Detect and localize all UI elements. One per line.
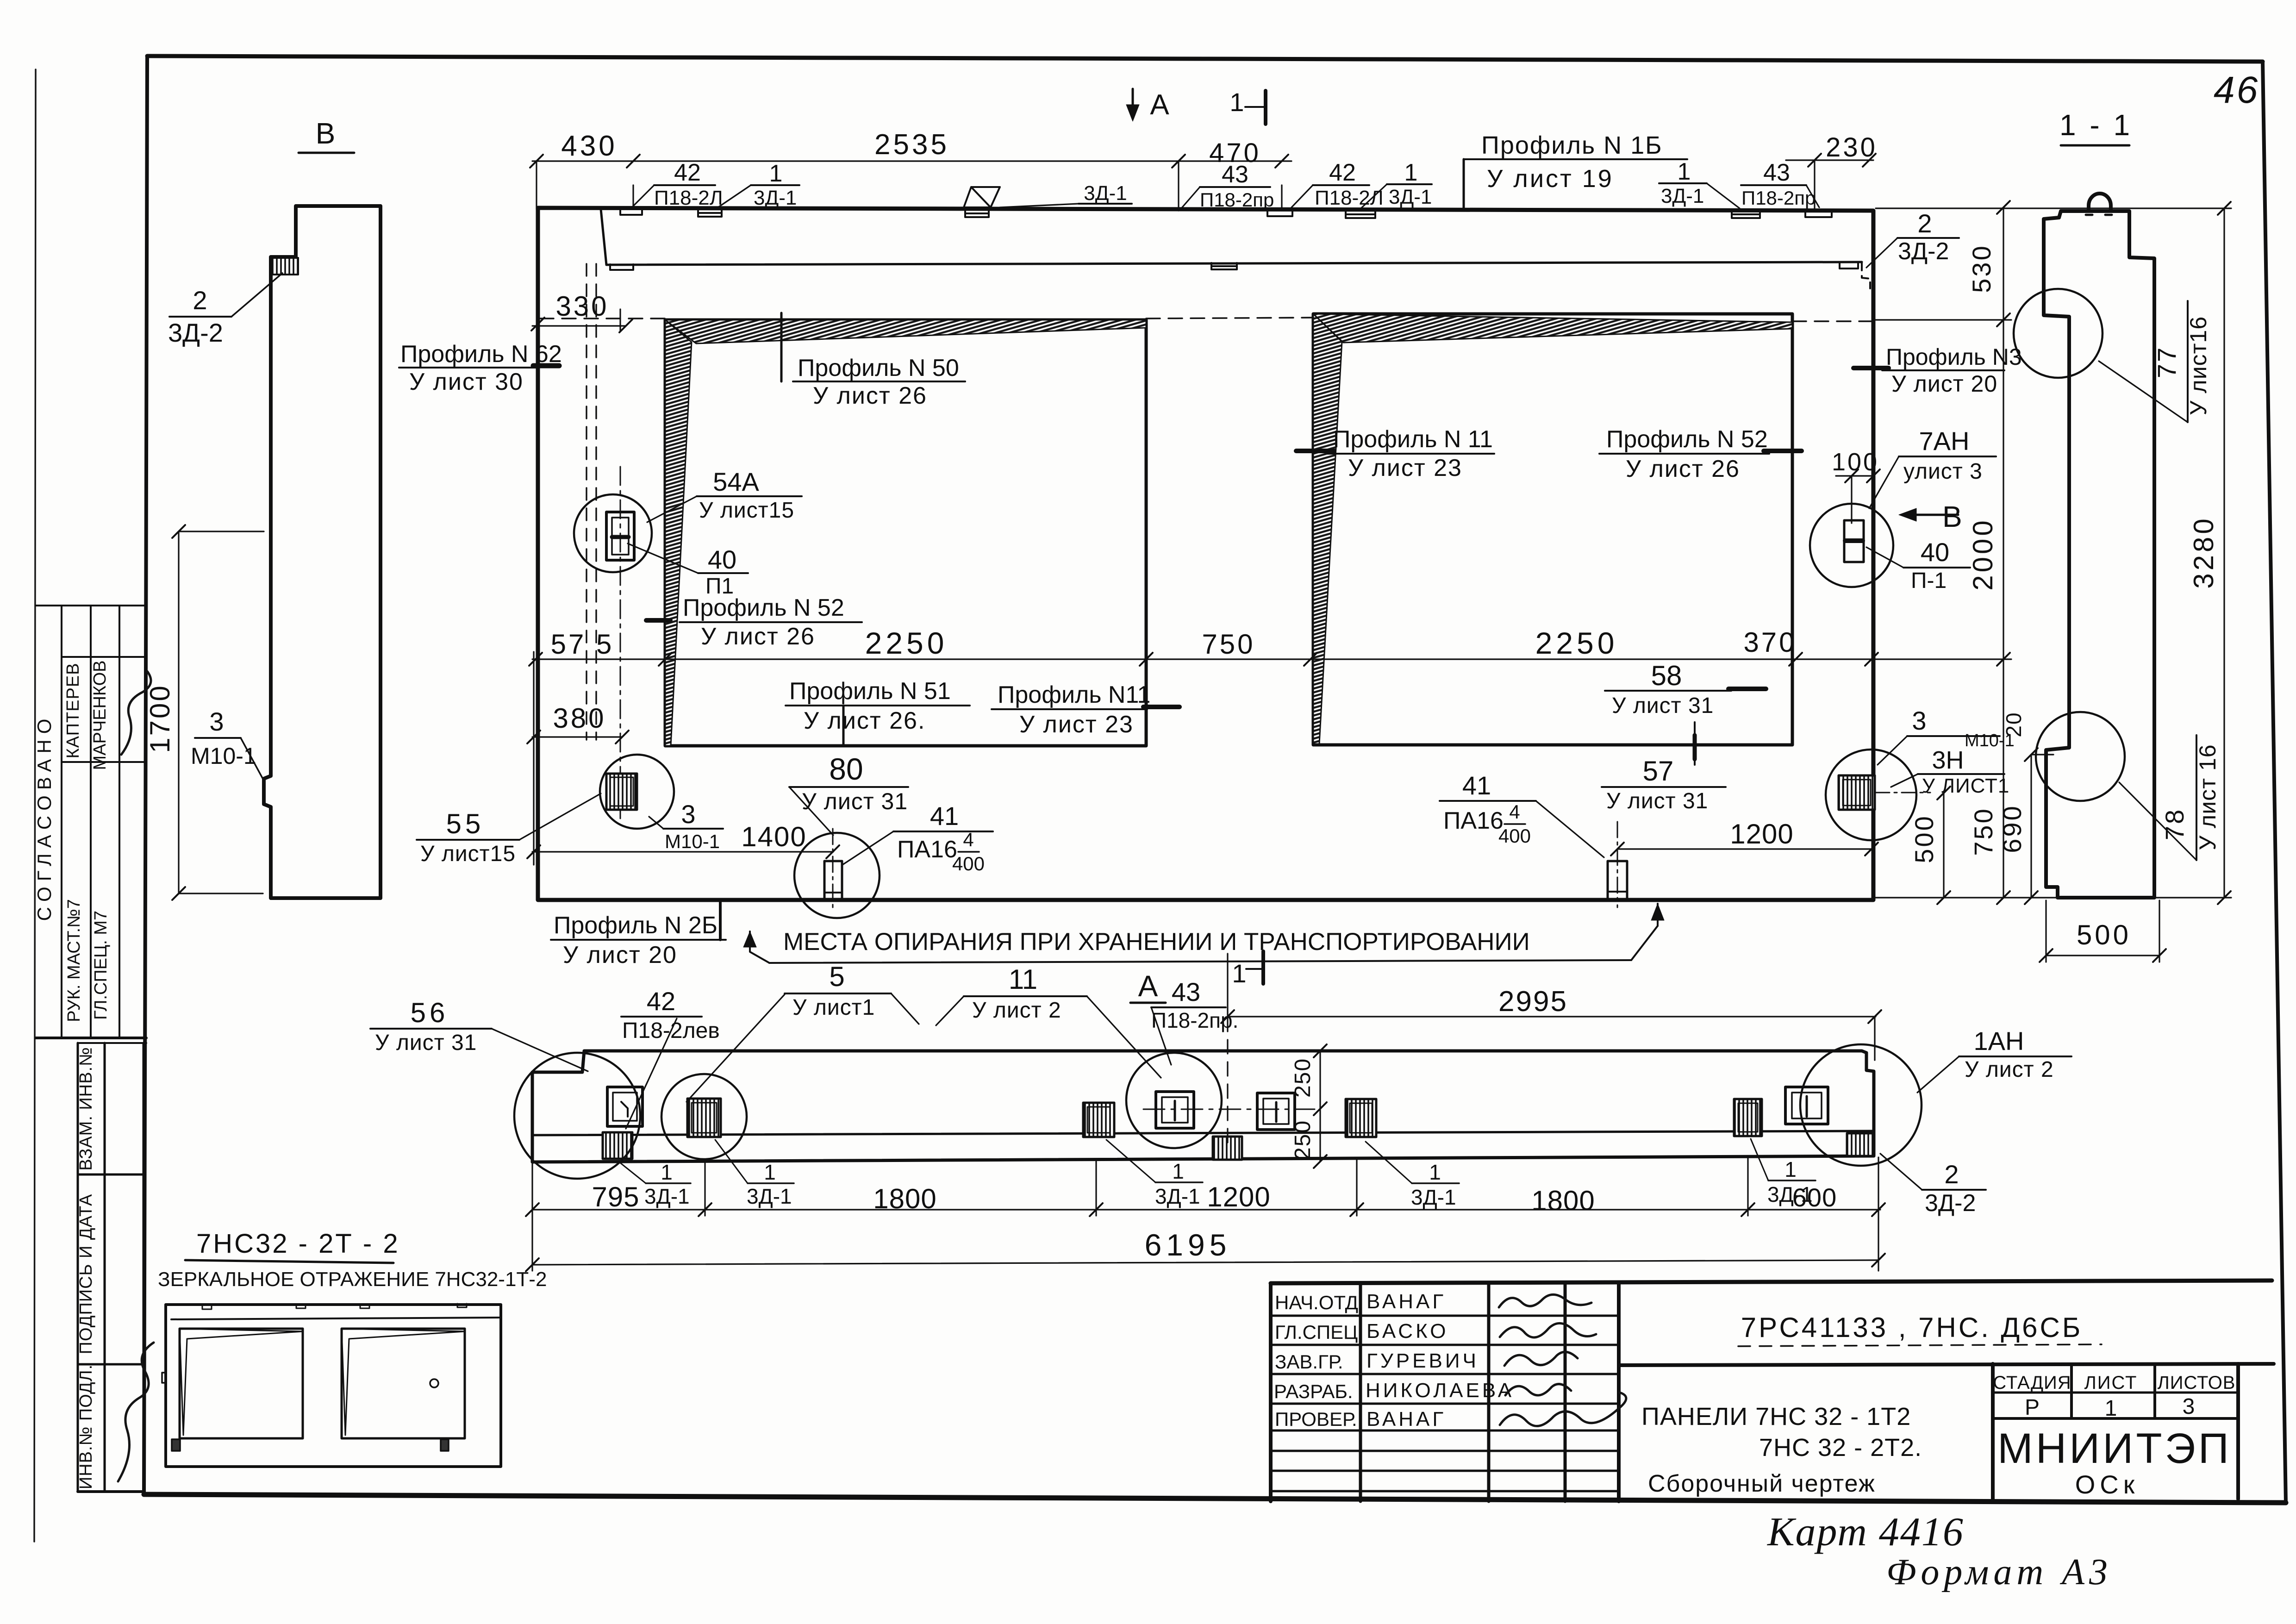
svg-text:43: 43 (1172, 977, 1200, 1006)
callout 40 / П1 (628, 543, 748, 599)
svg-text:Профиль N 51: Профиль N 51 (789, 678, 951, 705)
svg-text:ПРОВЕР.: ПРОВЕР. (1275, 1408, 1357, 1430)
svg-text:530: 530 (1967, 244, 1996, 293)
dimension 1700 (view B height) (172, 525, 264, 900)
svg-text:750: 750 (1202, 629, 1255, 660)
plan anchor A4 (loop anchor) (1156, 1092, 1194, 1128)
svg-text:А: А (1150, 89, 1169, 121)
svg-text:НИКОЛАЕВА: НИКОЛАЕВА (1366, 1379, 1514, 1402)
callout 41 / ПА16 4/400 (right) (1440, 771, 1604, 857)
svg-text:У лист 26.: У лист 26. (804, 707, 925, 734)
callout Профиль N 11 / У лист 23 (second) (992, 681, 1179, 738)
mini sketch window 2 (342, 1329, 465, 1438)
svg-text:1: 1 (1678, 158, 1691, 185)
svg-text:4: 4 (963, 829, 973, 850)
svg-text:3Д-1: 3Д-1 (1661, 185, 1704, 207)
callout 11 / У лист 2 (936, 964, 1161, 1078)
dimension 500 (right edge, anchor to bottom) (1937, 787, 1950, 904)
svg-text:У лист 31: У лист 31 (802, 788, 908, 814)
bolt detail right (1608, 822, 1627, 907)
section A arrow (top) (1126, 89, 1139, 121)
callout 2 / 3Д-2 (right edge top) (1866, 209, 1959, 268)
plan anchor A5 (loop anchor) (1257, 1093, 1295, 1130)
plan below-bar anchor B1 (hatched) (603, 1132, 632, 1159)
svg-text:РУК. МАСТ.№7: РУК. МАСТ.№7 (64, 899, 84, 1022)
elevation recess edge line (601, 209, 1870, 288)
callout Профиль N 50 / У лист 26 (781, 313, 965, 409)
svg-text:ПА16: ПА16 (1443, 807, 1504, 834)
svg-text:Профиль N 1Б: Профиль N 1Б (1481, 131, 1663, 159)
svg-text:3Д-1: 3Д-1 (747, 1184, 792, 1208)
callout 3 / М10-1 (elevation left) (649, 800, 723, 852)
callout 41 / ПА16 4/400 (left) (842, 801, 993, 874)
svg-text:4: 4 (1509, 801, 1520, 823)
callout Профиль N 1Б / У лист 19 (1464, 131, 1687, 209)
overall dimension 3280 (2218, 202, 2231, 904)
sidebar signature scribble (121, 671, 151, 755)
svg-text:3Д-1: 3Д-1 (754, 187, 797, 209)
svg-text:У лист 31: У лист 31 (1612, 693, 1714, 718)
dimension 500 (section bottom) (2040, 900, 2166, 962)
svg-text:1 - 1: 1 - 1 (2059, 108, 2133, 142)
anchor П1 detail (in circle) (606, 512, 634, 560)
svg-text:А: А (1138, 969, 1158, 1003)
svg-text:3Д-2: 3Д-2 (1898, 238, 1949, 265)
svg-text:У лист15: У лист15 (699, 498, 794, 523)
svg-text:7АН: 7АН (1919, 426, 1970, 456)
svg-text:РАЗРАБ.: РАЗРАБ. (1274, 1380, 1353, 1402)
callout Профиль N 62 / У лист 30 (399, 341, 562, 395)
svg-text:МАРЧЕНКОВ: МАРЧЕНКОВ (90, 660, 110, 770)
svg-text:1АН: 1АН (1974, 1026, 2024, 1056)
plan below-bar anchor B3 (hatched) (1213, 1137, 1242, 1160)
svg-text:1800: 1800 (1531, 1185, 1595, 1216)
svg-text:Профиль N11: Профиль N11 (998, 681, 1150, 708)
view B section outline (264, 206, 381, 898)
svg-text:У лист 31: У лист 31 (375, 1031, 477, 1055)
svg-text:Профиль N 2Б: Профиль N 2Б (554, 912, 717, 939)
callout Профиль N 52 / У лист 26 (window 2 right jamb) (1599, 426, 1802, 482)
svg-text:3Д-1: 3Д-1 (1155, 1184, 1200, 1208)
svg-text:У лист 23: У лист 23 (1348, 455, 1462, 481)
svg-text:2000: 2000 (1967, 518, 1998, 590)
svg-text:У лист 20: У лист 20 (563, 942, 677, 968)
svg-text:7НС 32 - 2Т2.: 7НС 32 - 2Т2. (1759, 1434, 1922, 1462)
left sidebar stamp (upper, СОГЛАСОВАНО block) (36, 606, 146, 1043)
view B top anchor (3Д-2) (271, 258, 298, 275)
plan anchor A7 (hatched) (1734, 1099, 1762, 1136)
callout 40 / П-1 (right) (1866, 537, 1970, 593)
svg-text:57: 57 (1643, 756, 1674, 787)
svg-text:ГУРЕВИЧ: ГУРЕВИЧ (1366, 1349, 1479, 1372)
svg-text:У лист 20: У лист 20 (1891, 371, 1997, 397)
svg-text:ЛИСТ: ЛИСТ (2084, 1373, 2138, 1393)
callout 80 / У лист 31 (789, 752, 908, 835)
svg-text:1200: 1200 (1730, 818, 1793, 849)
svg-text:3Д-1: 3Д-1 (1411, 1185, 1456, 1209)
svg-text:2250: 2250 (865, 626, 948, 660)
svg-text:1: 1 (1232, 959, 1246, 988)
title block signatures (cursive scribbles) (1499, 1294, 1626, 1426)
svg-text:ВЗАМ. ИНВ.№: ВЗАМ. ИНВ.№ (76, 1047, 96, 1171)
svg-text:250: 250 (1291, 1058, 1315, 1098)
detail circle plan A4 (11/43) (1126, 1053, 1222, 1148)
detail circle plan left (56) (514, 1053, 640, 1179)
svg-text:П-1: П-1 (1911, 568, 1947, 593)
svg-text:СОГЛАСОВАНО: СОГЛАСОВАНО (33, 713, 55, 921)
callout 1 / 3Д-1 (top left) (717, 160, 799, 209)
mid dimension line (575/2250/750/2250/370) (529, 652, 2011, 865)
svg-text:НАЧ.ОТД: НАЧ.ОТД (1275, 1292, 1358, 1313)
svg-text:1: 1 (1404, 159, 1418, 186)
svg-text:57 5: 57 5 (551, 629, 614, 660)
svg-text:2: 2 (1917, 209, 1932, 238)
svg-text:230: 230 (1826, 132, 1878, 162)
underline with arrows (места опирания) (743, 904, 1664, 963)
title block vertical divider for stage box (1991, 1364, 1995, 1501)
callout 7АН / улист 3 (1869, 426, 1996, 508)
callout Профиль N 51 / У лист 26. (786, 678, 970, 746)
callout 3Д-1 label (mid top, to trapezoid) (1000, 182, 1132, 207)
sidebar signature scribble lower (118, 1343, 154, 1481)
svg-text:20: 20 (2002, 712, 2026, 737)
svg-text:П18-2пр: П18-2пр (1200, 189, 1274, 211)
svg-text:80: 80 (829, 752, 863, 786)
svg-text:ИНВ.№ ПОДЛ.: ИНВ.№ ПОДЛ. (76, 1364, 96, 1489)
svg-text:2535: 2535 (874, 129, 949, 161)
svg-text:55: 55 (446, 808, 485, 839)
extension lines top and bottom right (1876, 208, 2231, 898)
view B arrow marker (1899, 508, 1958, 521)
callout 3 / М10-1 (view B) (191, 707, 265, 782)
window opening 1 (665, 320, 1146, 746)
callout 58 / У лист 31 (1605, 660, 1766, 718)
mini sketch small marks (162, 1373, 449, 1451)
svg-text:500: 500 (1909, 814, 1939, 863)
callout 1АН / У ЛИСТ 2 (1917, 1026, 2071, 1093)
svg-text:ЗЕРКАЛЬНОЕ ОТРАЖЕНИЕ 7НС32-1Т-: ЗЕРКАЛЬНОЕ ОТРАЖЕНИЕ 7НС32-1Т-2 (158, 1268, 547, 1291)
svg-text:ЛИСТОВ: ЛИСТОВ (2158, 1373, 2236, 1393)
svg-text:У лист1: У лист1 (792, 995, 875, 1020)
plan anchor A8 (loop anchor) (1785, 1087, 1828, 1124)
svg-text:П18-2пр: П18-2пр (1741, 187, 1816, 209)
plan below-bar anchor B4 (hatched) (1847, 1133, 1874, 1156)
svg-text:1: 1 (764, 1160, 776, 1184)
callout Профиль N 52 / У лист 26 (window1 left jamb) (646, 594, 862, 650)
mini sketch panel outline (166, 1305, 501, 1467)
svg-text:В: В (1942, 500, 1962, 533)
stage table (1993, 1364, 2238, 1499)
detail circle (78, section lower step) (2036, 712, 2125, 801)
callout Профиль N 11 / У лист 23 (window 2 jamb) (1296, 426, 1494, 481)
svg-text:5: 5 (829, 961, 844, 992)
mini sketch top flange line (171, 1318, 501, 1319)
svg-text:У ЛИСТ1: У ЛИСТ1 (1922, 775, 2009, 797)
dimension 330 (531, 309, 632, 332)
svg-text:330: 330 (555, 291, 609, 322)
svg-text:МНИИТЭП: МНИИТЭП (1997, 1425, 2232, 1472)
dimension 380 (527, 731, 629, 743)
svg-text:3: 3 (209, 707, 224, 736)
svg-text:795: 795 (592, 1181, 639, 1212)
3Д-1 trapezoid mark on top edge (964, 187, 1000, 207)
detail circle (3Н, right bottom corner anchor) (1826, 750, 1916, 840)
plan anchor A3 (hatched) (1083, 1103, 1114, 1137)
svg-text:1: 1 (1229, 87, 1244, 117)
svg-text:250: 250 (1291, 1120, 1315, 1160)
svg-text:У лист 23: У лист 23 (1019, 711, 1134, 738)
callout 3 / М10-1 (right) (1878, 706, 2015, 765)
callout 1/3Д-1 under plan (first) (620, 1160, 691, 1208)
callout 56 / У лист 31 (370, 997, 588, 1071)
svg-text:МЕСТА ОПИРАНИЯ ПРИ ХРАНЕНИИ: МЕСТА ОПИРАНИЯ ПРИ ХРАНЕНИИ И ТРАНСПОРТИ… (783, 928, 1530, 956)
callout 55 / У лист 15 (417, 793, 601, 866)
svg-text:3Д-1: 3Д-1 (1389, 186, 1432, 208)
callout 1 / 3Д-1 (third) (1659, 158, 1740, 208)
svg-text:П18-2Л: П18-2Л (654, 187, 723, 209)
svg-text:ОСк: ОСк (2075, 1470, 2140, 1499)
axis dash through A4-A5 (1143, 1109, 1315, 1110)
dimension 6195 (526, 1254, 1885, 1271)
callout 54А / У лист 15 (647, 467, 802, 523)
callout 1/3Д-1 under plan (fourth) (1366, 1142, 1459, 1209)
callout 1/3Д-1 under plan (second) (715, 1140, 794, 1208)
section 1-1 outline (2044, 211, 2154, 898)
dimension 1400 (527, 845, 839, 858)
detail circle (54А, window1 jamb anchor) (574, 494, 652, 572)
svg-text:77: 77 (2152, 346, 2181, 378)
svg-text:ПАНЕЛИ 7НС 32 - 1Т2: ПАНЕЛИ 7НС 32 - 1Т2 (1641, 1403, 1911, 1430)
svg-text:У лист 2: У лист 2 (1965, 1057, 2054, 1082)
svg-text:У лист 26: У лист 26 (1626, 456, 1740, 482)
svg-text:М10-1: М10-1 (665, 831, 720, 852)
svg-text:11: 11 (1009, 964, 1037, 995)
svg-text:2: 2 (1944, 1160, 1959, 1189)
callout Профиль N 2Б / У лист 20 (551, 902, 726, 968)
svg-text:41: 41 (930, 801, 959, 831)
svg-text:ВАНАГ: ВАНАГ (1366, 1408, 1446, 1430)
mini sketch top notches (202, 1304, 467, 1309)
plan view outline (532, 1051, 1874, 1162)
svg-text:Профиль N 52: Профиль N 52 (1606, 426, 1768, 453)
svg-text:ПОДПИСЬ И ДАТА: ПОДПИСЬ И ДАТА (76, 1194, 96, 1355)
mini sketch window 1 (180, 1329, 303, 1438)
title block row labels (1274, 1292, 1358, 1430)
callout 42 / П18-2Л (far left) (633, 159, 723, 209)
svg-text:П18-2пр.: П18-2пр. (1151, 1008, 1238, 1032)
svg-text:40: 40 (708, 545, 736, 574)
svg-text:У лист 31: У лист 31 (1606, 789, 1708, 813)
detail circle (7АН, right jamb anchor) (1810, 504, 1893, 587)
svg-text:1400: 1400 (741, 821, 806, 852)
bolt detail left (824, 829, 842, 909)
svg-text:У лист16: У лист16 (2185, 316, 2211, 415)
left sidebar stamp (lower, ИНВ block) (78, 1043, 143, 1492)
svg-text:У лист 19: У лист 19 (1487, 165, 1614, 193)
svg-text:У лист 26: У лист 26 (701, 623, 815, 650)
callout 3Н / У ЛИСТ 1 (1891, 746, 2009, 797)
svg-text:1700: 1700 (144, 684, 175, 753)
svg-text:Сборочный чертеж: Сборочный чертеж (1648, 1470, 1876, 1497)
svg-text:Профиль N3: Профиль N3 (1886, 344, 2022, 370)
dimension 250/250 (plan height) (1314, 1044, 1327, 1168)
right chain dimension line (530/2000/750) (1873, 201, 2011, 904)
svg-text:56: 56 (411, 997, 449, 1028)
svg-text:Р: Р (2025, 1395, 2040, 1420)
recess line anchor notches (610, 262, 1858, 270)
callout 77 / У лист 16 (rotated) (2099, 301, 2211, 422)
svg-text:690: 690 (1997, 804, 2027, 853)
top edge anchor notches (620, 209, 1832, 218)
svg-text:58: 58 (1651, 660, 1682, 691)
svg-text:У лист 26: У лист 26 (813, 382, 927, 409)
lifting loop on section top (2089, 194, 2111, 211)
svg-text:7НС32 - 2Т - 2: 7НС32 - 2Т - 2 (196, 1229, 400, 1259)
svg-text:42: 42 (647, 987, 675, 1016)
svg-text:78: 78 (2160, 808, 2189, 840)
svg-text:ГЛ.СПЕЦ: ГЛ.СПЕЦ (1275, 1321, 1358, 1343)
svg-text:42: 42 (674, 159, 701, 186)
plan lower dimension line (795/1800/1200/1800/600) (526, 1157, 1885, 1271)
detail circle 55 (left edge anchor) (600, 755, 674, 829)
svg-text:2995: 2995 (1498, 986, 1568, 1018)
callout 2 / 3Д-2 (plan right) (1880, 1154, 1986, 1217)
title block outer box (1271, 1280, 2274, 1501)
title block names (1366, 1290, 1514, 1430)
dimension 20 and 690 (section left) (2025, 748, 2053, 904)
hatched anchor (right bottom) (1839, 775, 1930, 810)
detail circle plan A2 (42) (661, 1074, 747, 1159)
detail circle plan right (1АН) (1800, 1044, 1922, 1166)
svg-text:400: 400 (952, 853, 985, 874)
svg-text:2250: 2250 (1535, 626, 1618, 660)
svg-text:3: 3 (1912, 706, 1926, 735)
anchor axis line (dash-dot, x=1340) (620, 467, 621, 820)
svg-text:1: 1 (1784, 1157, 1797, 1181)
svg-text:У лист 16: У лист 16 (2195, 744, 2221, 850)
plan anchor A1 (loop anchor with Г mark) (607, 1087, 643, 1126)
svg-text:750: 750 (1969, 807, 1998, 856)
svg-text:Карт 4416: Карт 4416 (1766, 1510, 1964, 1555)
svg-text:40: 40 (1921, 537, 1949, 567)
svg-text:1: 1 (1429, 1160, 1441, 1184)
svg-text:3: 3 (2183, 1394, 2195, 1419)
svg-text:3Д-2: 3Д-2 (1925, 1190, 1976, 1217)
svg-text:В: В (316, 117, 336, 150)
svg-text:Профиль N 11: Профиль N 11 (1333, 426, 1493, 453)
svg-text:У лист 2: У лист 2 (972, 998, 1061, 1023)
callout 57 / У лист 31 with bracket to sill (1602, 722, 1726, 813)
svg-text:400: 400 (1498, 825, 1531, 847)
hidden edge dashed pair (left) (586, 264, 596, 740)
top dimension line (430 / 2535 / 470 / 230) (530, 154, 1876, 211)
svg-text:1: 1 (769, 160, 783, 187)
callout 42 / П18-2Л (second) (1291, 159, 1384, 209)
detail circle (77, section upper step) (2014, 289, 2103, 378)
callout 42 / П18-2лев (621, 987, 720, 1129)
svg-text:54А: 54А (713, 467, 759, 496)
callout 43 / П18-2пр (plan) (1151, 977, 1238, 1065)
svg-text:46: 46 (2214, 69, 2259, 111)
svg-text:1200: 1200 (1207, 1181, 1270, 1212)
callout 1/3Д-1 under plan (third) (1106, 1140, 1203, 1208)
svg-text:370: 370 (1743, 627, 1797, 658)
dimension 100 (right jamb anchor) (1836, 469, 1880, 523)
callout 43 / П18-2пр (second) (1741, 159, 1819, 209)
svg-text:500: 500 (2077, 919, 2131, 950)
svg-text:41: 41 (1462, 771, 1491, 800)
plan anchor A2 (hatched) (687, 1099, 721, 1137)
svg-text:БАСКО: БАСКО (1366, 1320, 1448, 1343)
plan mid face line (532, 1131, 1874, 1135)
svg-text:ЗАВ.ГР.: ЗАВ.ГР. (1275, 1351, 1343, 1373)
callout 5 / У лист 1 (686, 961, 919, 1102)
svg-text:42: 42 (1329, 159, 1356, 186)
svg-text:100: 100 (1832, 448, 1879, 476)
svg-text:3280: 3280 (2188, 516, 2219, 588)
svg-text:Формат А3: Формат А3 (1886, 1552, 2112, 1593)
svg-text:43: 43 (1222, 161, 1248, 188)
callout 2 / 3Д-2 (view B) (168, 273, 282, 347)
window opening 2 (1313, 314, 1792, 745)
dimension 1200 (bottom right of elevation) (1611, 843, 1878, 856)
callout 78 / У лист 16 (rotated) (2119, 735, 2221, 860)
svg-text:У лист 30: У лист 30 (409, 369, 524, 395)
svg-text:Профиль N 52: Профиль N 52 (683, 594, 844, 621)
anchor П-1 detail (right, in circle) (1844, 520, 1864, 562)
left paper margin line (34, 69, 36, 1542)
main elevation panel outline (538, 208, 1873, 900)
svg-text:3: 3 (681, 800, 695, 829)
svg-text:ВАНАГ: ВАНАГ (1366, 1290, 1446, 1313)
dashed window-top level line (540, 318, 1872, 321)
callout 43 / П18-2пр (left of 470) (1181, 161, 1274, 211)
svg-text:3Д-1: 3Д-1 (1084, 182, 1127, 205)
svg-text:Профиль N 50: Профиль N 50 (798, 355, 959, 381)
callout Профиль N3 / У лист 20 (panel right edge) (1853, 344, 2022, 397)
svg-text:3Н: 3Н (1932, 746, 1964, 774)
svg-text:СТАДИЯ: СТАДИЯ (1993, 1373, 2071, 1393)
svg-text:380: 380 (553, 703, 606, 734)
svg-text:2: 2 (193, 286, 207, 315)
svg-text:1: 1 (2105, 1396, 2117, 1421)
svg-text:ГЛ.СПЕЦ. М7: ГЛ.СПЕЦ. М7 (91, 911, 111, 1020)
hatched anchor (left, М10-1 area) (606, 774, 637, 810)
svg-text:7РС41133 , 7НС. Д6СБ: 7РС41133 , 7НС. Д6СБ (1741, 1312, 2083, 1343)
svg-text:1800: 1800 (873, 1183, 936, 1214)
svg-text:3Д-1: 3Д-1 (644, 1184, 690, 1208)
svg-text:У лист15: У лист15 (420, 842, 516, 866)
detail circle (bolt ПА16 left) (794, 833, 880, 918)
svg-text:430: 430 (561, 130, 617, 162)
callout 1 / 3Д-1 (second) (1361, 159, 1432, 208)
dimension 2995 (1221, 954, 1881, 1060)
svg-text:3Д-2: 3Д-2 (168, 318, 223, 347)
svg-text:43: 43 (1763, 159, 1790, 186)
svg-text:1: 1 (1172, 1159, 1184, 1183)
svg-text:3Д-1: 3Д-1 (1767, 1182, 1813, 1206)
svg-text:6195: 6195 (1145, 1228, 1231, 1262)
plan anchor A6 (hatched) (1346, 1099, 1376, 1137)
svg-text:КАПТЕРЕВ: КАПТЕРЕВ (63, 663, 83, 759)
svg-text:ПА16: ПА16 (897, 836, 957, 863)
section 1 dashed line through plan (1227, 1018, 1228, 1148)
svg-text:1: 1 (661, 1160, 673, 1184)
svg-text:улист 3: улист 3 (1903, 459, 1983, 484)
callout 1/3Д-1 under plan (fifth) (1751, 1139, 1816, 1206)
